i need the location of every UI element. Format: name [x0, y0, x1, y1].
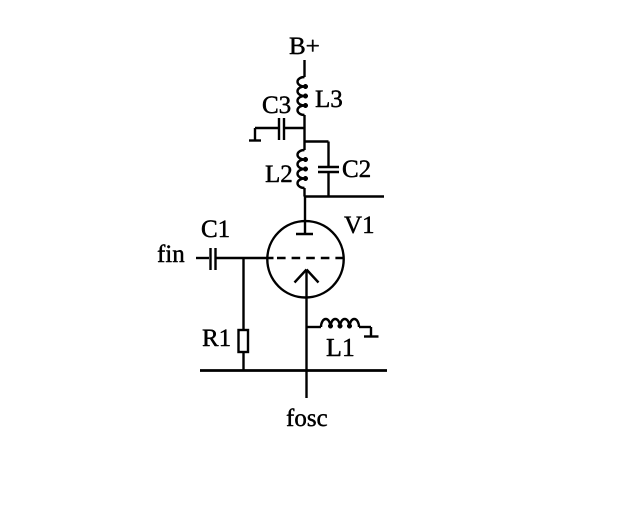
- tube V1 envelope: [267, 221, 343, 297]
- wire ground bus: [200, 369, 387, 372]
- wire fin to C1: [196, 257, 209, 259]
- capacitor C2: [318, 160, 370, 177]
- terminal stub right of L1: [364, 327, 379, 337]
- wire plate lead: [304, 197, 306, 234]
- wire cathode lead: [305, 270, 307, 398]
- capacitor C1: [202, 220, 229, 270]
- wire B+ lead: [303, 60, 305, 77]
- wire branch to C2: [305, 142, 329, 167]
- tube grid dashed: [277, 257, 345, 259]
- wire C2 bottom: [327, 173, 329, 197]
- node fin label: [158, 244, 185, 262]
- wire C1 to grid: [217, 257, 274, 259]
- inductor L2: [266, 150, 308, 188]
- wire node to R1: [242, 258, 244, 330]
- wire junction to L2 top: [303, 128, 305, 150]
- terminal stub left of C3: [249, 128, 261, 141]
- node B+ label: [290, 38, 319, 55]
- inductor L1: [307, 319, 371, 356]
- resistor R1: [203, 330, 248, 353]
- node fosc label: [287, 408, 327, 426]
- tube plate bar: [296, 233, 313, 235]
- wire L3 to C3 junction: [303, 115, 305, 128]
- wire R1 to ground bus: [242, 352, 244, 371]
- capacitor C3: [255, 96, 305, 140]
- wire L2 bottom: [303, 188, 305, 197]
- tube cathode arrow: [295, 270, 319, 283]
- wire screen bus: [305, 195, 385, 197]
- inductor L3: [298, 77, 342, 115]
